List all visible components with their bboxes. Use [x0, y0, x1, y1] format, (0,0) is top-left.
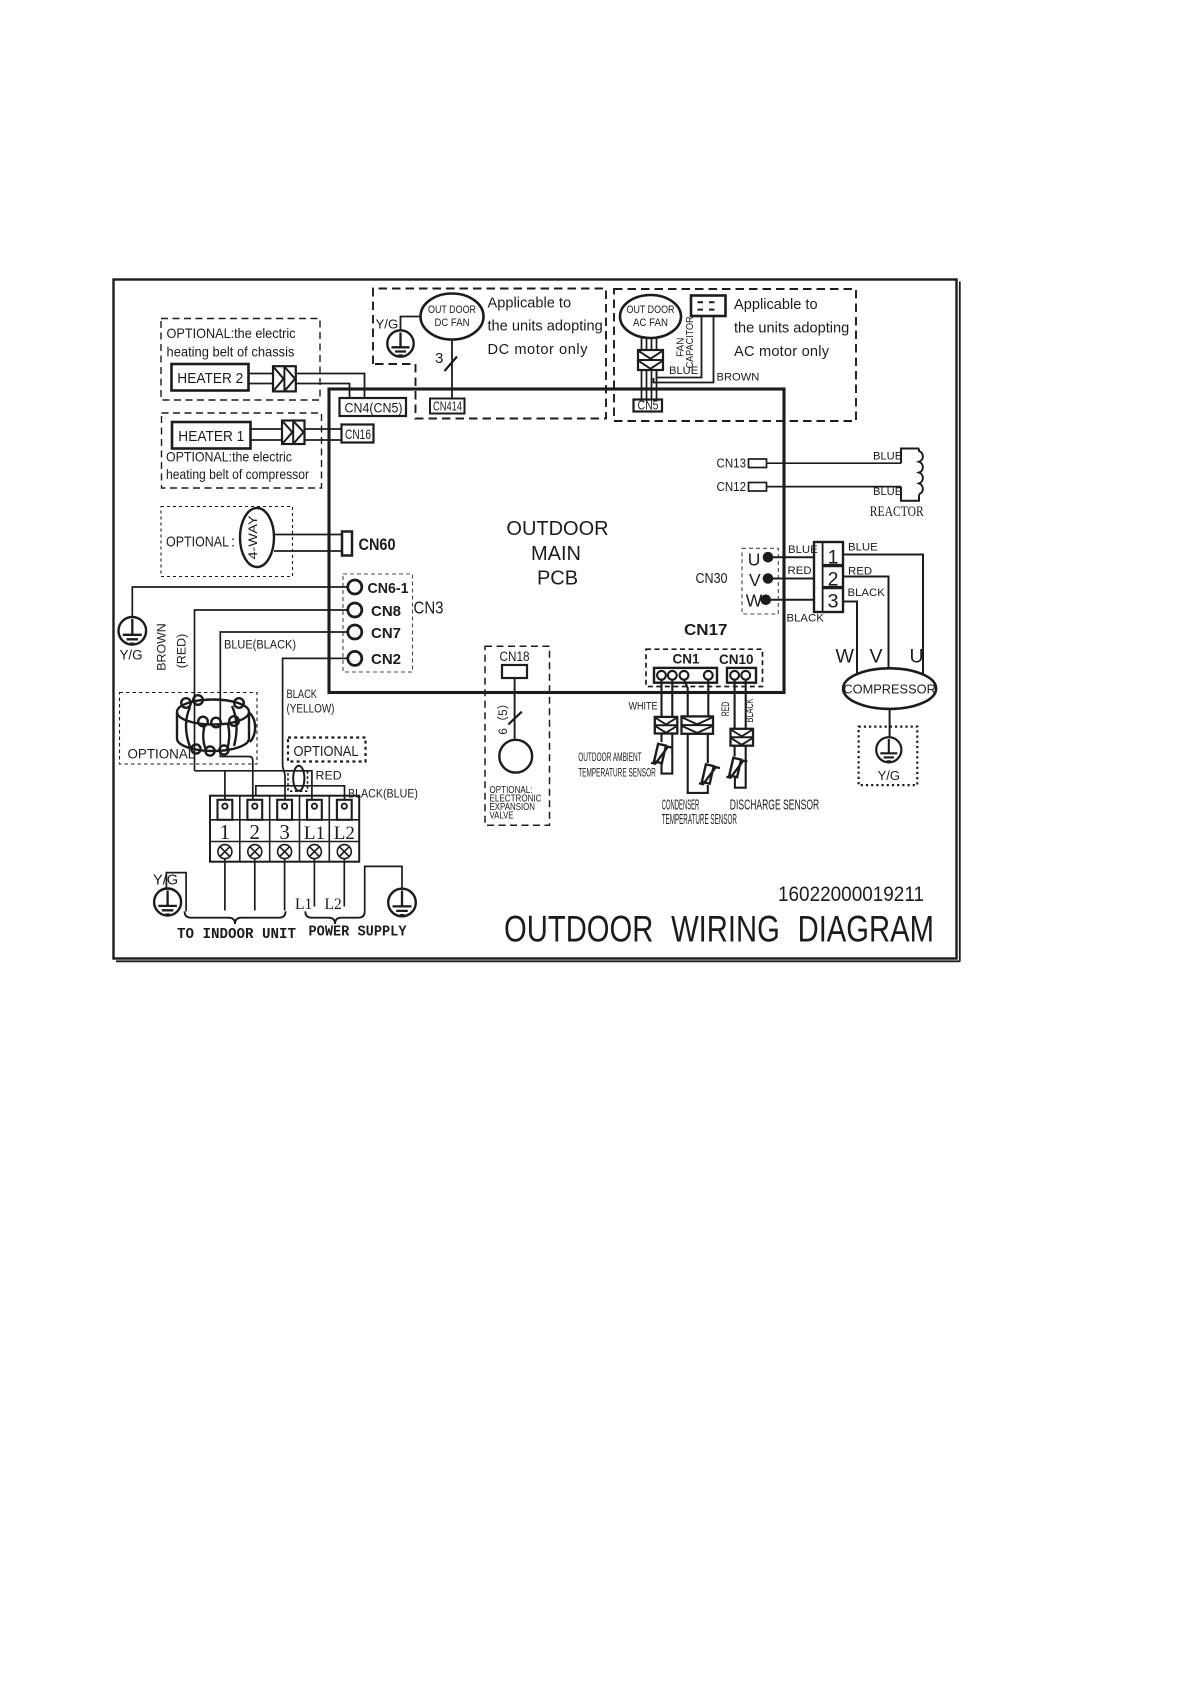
svg-text:BLUE: BLUE — [848, 542, 878, 554]
svg-text:3: 3 — [435, 350, 443, 367]
svg-text:OPTIONAL:the electric: OPTIONAL:the electric — [166, 450, 292, 465]
svg-text::: : — [231, 535, 235, 551]
svg-text:DC FAN: DC FAN — [435, 317, 470, 329]
svg-text:DC motor only: DC motor only — [488, 342, 589, 358]
svg-text:VALVE: VALVE — [490, 810, 514, 821]
svg-text:U: U — [748, 550, 761, 570]
svg-text:CN2: CN2 — [371, 651, 401, 668]
svg-text:BLUE: BLUE — [873, 451, 902, 463]
svg-text:OUT DOOR: OUT DOOR — [627, 304, 675, 316]
svg-text:6（5）: 6（5） — [496, 697, 510, 734]
svg-text:2: 2 — [828, 569, 839, 591]
svg-text:AC motor only: AC motor only — [734, 344, 830, 360]
svg-text:(YELLOW): (YELLOW) — [287, 702, 335, 716]
svg-text:L2: L2 — [325, 896, 342, 913]
svg-text:V: V — [749, 570, 761, 590]
svg-text:CN60: CN60 — [359, 536, 396, 554]
svg-text:MAIN: MAIN — [531, 543, 581, 565]
svg-text:PCB: PCB — [537, 567, 578, 589]
svg-text:CN16: CN16 — [345, 427, 371, 442]
svg-text:L1: L1 — [304, 823, 325, 844]
svg-text:W: W — [746, 591, 763, 611]
svg-text:CN13: CN13 — [717, 457, 747, 471]
svg-text:WHITE: WHITE — [629, 701, 658, 713]
svg-text:OPTIONAL:the electric: OPTIONAL:the electric — [167, 326, 296, 341]
svg-text:16022000019211: 16022000019211 — [778, 881, 924, 906]
svg-text:HEATER 2: HEATER 2 — [177, 370, 243, 387]
svg-text:CN8: CN8 — [371, 603, 401, 620]
svg-text:TEMPERATURE SENSOR: TEMPERATURE SENSOR — [578, 765, 656, 779]
svg-text:2: 2 — [250, 820, 261, 844]
svg-text:L2: L2 — [334, 823, 355, 844]
svg-text:V: V — [870, 646, 883, 668]
svg-text:CN17: CN17 — [684, 622, 728, 639]
svg-text:CN414: CN414 — [433, 400, 462, 414]
svg-text:TO INDOOR UNIT: TO INDOOR UNIT — [177, 926, 296, 943]
svg-text:OPTIONAL: OPTIONAL — [294, 743, 359, 760]
svg-text:OUT DOOR: OUT DOOR — [428, 304, 476, 316]
svg-text:CN30: CN30 — [696, 570, 728, 587]
svg-text:CN6-1: CN6-1 — [368, 580, 409, 597]
svg-text:CN7: CN7 — [371, 625, 401, 642]
svg-text:CN1: CN1 — [673, 652, 700, 667]
svg-text:CONDENSER: CONDENSER — [662, 797, 700, 813]
svg-text:4-WAY: 4-WAY — [246, 516, 260, 560]
svg-text:CN18: CN18 — [500, 649, 530, 664]
svg-text:BLACK: BLACK — [744, 698, 756, 722]
svg-text:1: 1 — [828, 547, 839, 569]
svg-text:Y/G: Y/G — [153, 872, 178, 888]
svg-text:heating belt of compressor: heating belt of compressor — [166, 467, 309, 482]
svg-text:heating belt of chassis: heating belt of chassis — [167, 345, 295, 360]
svg-text:CN4(CN5): CN4(CN5) — [345, 400, 403, 415]
svg-text:BLACK: BLACK — [787, 613, 825, 625]
svg-text:POWER SUPPLY: POWER SUPPLY — [309, 924, 407, 941]
svg-text:U: U — [910, 646, 924, 668]
svg-text:Y/G: Y/G — [878, 768, 900, 783]
svg-text:BROWN: BROWN — [155, 623, 169, 671]
svg-text:BLACK: BLACK — [287, 687, 318, 701]
svg-text:COMPRESSOR: COMPRESSOR — [843, 682, 935, 697]
svg-text:3: 3 — [279, 820, 290, 844]
svg-text:OUTDOOR AMBIENT: OUTDOOR AMBIENT — [578, 750, 642, 764]
svg-text:BLUE: BLUE — [669, 365, 698, 377]
svg-text:3: 3 — [828, 591, 839, 613]
svg-text:TEMPERATURE SENSOR: TEMPERATURE SENSOR — [662, 812, 737, 828]
svg-text:the units adopting: the units adopting — [488, 319, 603, 335]
svg-text:RED: RED — [848, 566, 872, 578]
svg-text:DISCHARGE SENSOR: DISCHARGE SENSOR — [730, 797, 819, 813]
svg-text:OPTIONAL: OPTIONAL — [128, 747, 196, 762]
svg-text:RED: RED — [788, 565, 812, 577]
svg-text:BLUE(BLACK): BLUE(BLACK) — [224, 638, 296, 652]
svg-text:REACTOR: REACTOR — [870, 504, 924, 520]
svg-text:BLACK(BLUE): BLACK(BLUE) — [348, 787, 418, 801]
svg-text:BLUE: BLUE — [788, 544, 818, 556]
svg-text:BLACK: BLACK — [848, 587, 886, 599]
svg-text:Applicable to: Applicable to — [488, 296, 572, 312]
svg-text:CN10: CN10 — [719, 652, 754, 667]
svg-text:the units adopting: the units adopting — [734, 321, 849, 337]
svg-text:Applicable to: Applicable to — [734, 297, 818, 313]
svg-text:CN12: CN12 — [717, 480, 747, 494]
svg-text:OUTDOOR WIRING DIAGRAM: OUTDOOR WIRING DIAGRAM — [504, 909, 934, 950]
svg-text:CN5: CN5 — [638, 399, 659, 413]
svg-text:RED: RED — [720, 702, 732, 717]
svg-text:L1: L1 — [295, 896, 312, 913]
svg-text:OUTDOOR: OUTDOOR — [506, 518, 608, 540]
svg-text:AC FAN: AC FAN — [633, 317, 668, 329]
svg-text:Y/G: Y/G — [376, 316, 399, 331]
svg-text:HEATER 1: HEATER 1 — [178, 428, 244, 445]
svg-text:OPTIONAL: OPTIONAL — [166, 535, 229, 551]
svg-text:(RED): (RED) — [175, 634, 189, 668]
svg-text:W: W — [836, 646, 855, 668]
svg-text:Y/G: Y/G — [120, 648, 143, 663]
svg-text:1: 1 — [220, 820, 231, 844]
svg-text:BROWN: BROWN — [717, 372, 760, 384]
svg-text:BLUE: BLUE — [873, 486, 902, 498]
svg-text:RED: RED — [316, 769, 342, 783]
svg-text:CN3: CN3 — [414, 598, 444, 618]
svg-text:CAPACITOR: CAPACITOR — [685, 316, 696, 368]
